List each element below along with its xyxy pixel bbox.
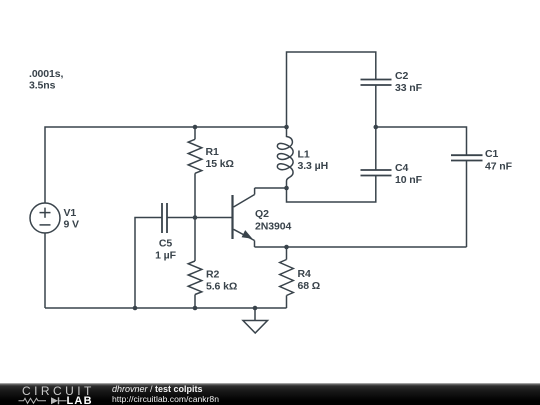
svg-text:C4: C4 [395,162,408,174]
svg-text:L1: L1 [298,149,310,161]
node dot R2-bottom [193,306,198,311]
resistor R1 [188,139,202,173]
wire R4 bottom lead [286,296,288,309]
node dot collector [284,186,289,191]
resistor R2 [188,261,202,295]
svg-text:10 nF: 10 nF [395,174,423,186]
transistor Q2 [233,188,255,247]
svg-text:68 Ω: 68 Ω [298,280,321,292]
svg-text:47 nF: 47 nF [485,161,513,173]
node dot emitter [284,245,289,250]
svg-text:15 kΩ: 15 kΩ [206,158,234,170]
footer bar [0,383,540,405]
wire rail R1 top to L1 top [195,126,287,128]
capacitor C4 [361,170,392,176]
wire base [195,217,233,219]
resistor R4 [280,260,294,296]
voltage source V1 [30,203,60,233]
node dot C2-C4 [374,125,379,130]
footer attribution text [112,384,203,394]
svg-text:C1: C1 [485,148,498,160]
wire R2 top lead [194,218,196,262]
capacitor C1 [451,155,483,160]
svg-text:C2: C2 [395,70,408,82]
node dot rail-R1 [193,125,198,130]
CircuitLab logo [14,383,98,405]
svg-text:LAB: LAB [67,395,93,405]
svg-text:5.6 kΩ: 5.6 kΩ [206,281,237,293]
svg-text:33 nF: 33 nF [395,82,423,94]
wire bottom rail [45,307,287,309]
wire C5 left lead down to bottom rail [135,218,162,309]
wire collector horizontal [255,187,287,189]
node dot rail-L1 [284,125,289,130]
svg-text:C5: C5 [159,238,172,250]
wire C4 bottom to collector node [287,176,376,203]
svg-text:R4: R4 [298,268,311,280]
wire V1 bottom lead [44,233,46,308]
svg-text:Q2: Q2 [255,208,269,220]
wire C5 right lead [167,217,195,219]
wire top-left rail V1 to R1 top [45,127,195,203]
capacitor C5 [162,203,167,233]
capacitor C2 [361,80,392,86]
wire R1 top lead [194,127,196,139]
svg-text:3.3 µH: 3.3 µH [298,160,329,172]
svg-text:V1: V1 [64,207,77,219]
wire C4 top lead [375,127,377,170]
svg-text:1 µF: 1 µF [155,250,177,262]
node dot base [193,215,198,220]
svg-text:R2: R2 [206,269,219,281]
svg-text:9 V: 9 V [64,219,80,231]
wire C1 bottom lead [466,161,468,248]
wire node C2C4 to C1 top [376,127,467,155]
wire emitter rail [255,246,467,248]
svg-text:3.5ns: 3.5ns [29,80,56,92]
node dot ground [253,306,258,311]
inductor L1 [277,127,293,188]
wire top rectangle L1 to C2 [287,52,376,127]
svg-text:2N3904: 2N3904 [255,221,291,233]
ground [243,308,268,333]
wire R1 bottom lead to base node [194,173,196,217]
wire C2 bottom lead [375,85,377,127]
node dot C5-bottom [133,306,138,311]
svg-text:.0001s,: .0001s, [29,68,64,80]
svg-text:R1: R1 [206,146,219,158]
wire R4 top lead [286,247,288,260]
footer url text [112,394,219,404]
wire R2 bottom lead [194,295,196,309]
